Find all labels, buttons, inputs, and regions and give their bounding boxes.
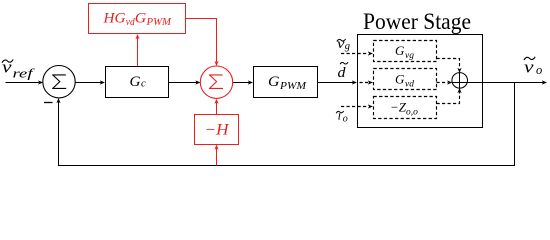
svg-text:vg: vg (405, 51, 414, 61)
svg-text:v: v (524, 58, 534, 77)
svg-text:vd: vd (405, 80, 414, 90)
svg-text:−H: −H (205, 121, 230, 138)
svg-text:ı: ı (338, 109, 341, 123)
svg-text:PWM: PWM (145, 17, 172, 28)
svg-text:G: G (135, 11, 147, 27)
svg-text:c: c (141, 79, 146, 90)
svg-text:Power Stage: Power Stage (363, 9, 471, 34)
svg-text:PWM: PWM (279, 81, 307, 92)
svg-text:d: d (338, 65, 347, 81)
svg-text:o,o: o,o (406, 108, 418, 118)
svg-text:G: G (268, 74, 280, 90)
svg-text:−Z: −Z (390, 100, 407, 115)
svg-text:o: o (343, 114, 348, 125)
svg-text:ref: ref (13, 66, 36, 81)
svg-text:g: g (345, 41, 350, 52)
svg-text:o: o (536, 63, 542, 77)
svg-text:G: G (130, 74, 141, 90)
svg-text:HG: HG (102, 11, 125, 27)
svg-text:G: G (395, 43, 405, 58)
svg-text:v: v (337, 36, 345, 51)
svg-text:G: G (395, 72, 405, 87)
